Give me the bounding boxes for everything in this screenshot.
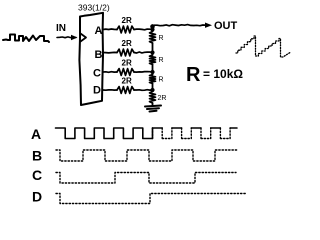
svg-text:A: A [95,25,103,37]
arrowhead OUT [205,23,212,28]
clock input triangle [81,34,87,42]
svg-text:D: D [93,85,101,97]
svg-text:2R: 2R [122,59,132,68]
svg-text:B: B [32,148,42,164]
wire to ladder node B [134,52,153,53]
ground [145,106,161,112]
waveform C [56,173,236,184]
resistor 2R row A [117,26,134,33]
svg-text:R: R [159,77,164,84]
svg-text:2R: 2R [158,95,167,102]
svg-text:2R: 2R [122,16,132,25]
resistor 2R row D [117,87,134,94]
resistor R ladder 1 [152,30,154,32]
svg-text:A: A [31,126,41,142]
waveform B [56,150,237,161]
waveform A [56,128,153,139]
wire D output [103,89,117,91]
input squarewave sketch [3,35,49,43]
resistor 2R ladder 4 [152,90,154,92]
svg-text:OUT: OUT [214,20,238,32]
wire bus top [152,25,154,29]
svg-text:C: C [93,68,101,80]
svg-text:393(1/2): 393(1/2) [78,3,110,13]
svg-text:R: R [159,57,164,64]
svg-text:R: R [186,64,201,86]
svg-text:= 10kΩ: = 10kΩ [203,67,243,81]
wire B output [103,51,117,54]
counter IC U1 (74HC393 half) body [79,13,103,105]
svg-text:2R: 2R [122,39,132,48]
junction node OUT [150,24,155,29]
wire A output [103,28,117,31]
wire to OUT [154,25,206,26]
arrowhead [71,35,78,40]
wire to ladder node A [134,28,153,31]
resistor 2R row C [117,69,134,76]
svg-text:IN: IN [56,23,66,34]
svg-text:C: C [32,167,42,183]
junction node C [150,70,154,74]
output staircase waveform sketch [236,36,290,57]
svg-text:R: R [159,35,164,42]
wire IN to clock input [57,36,76,39]
svg-text:B: B [95,49,103,61]
svg-text:D: D [32,189,42,205]
wire C output [103,71,117,74]
junction node D [150,88,154,92]
junction node A [150,27,154,31]
resistor 2R row B [117,49,134,56]
resistor R ladder 3 [152,72,154,75]
svg-text:2R: 2R [122,77,132,86]
resistor R ladder 2 [152,53,154,56]
wire to ladder node D [134,89,153,92]
waveform D [56,194,246,204]
wire to ladder node C [134,71,153,74]
junction node B [150,50,154,54]
